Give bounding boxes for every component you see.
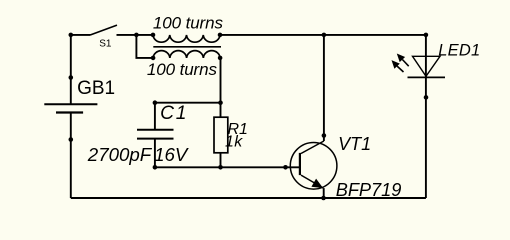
svg-text:C1: C1 — [160, 103, 188, 124]
svg-text:VT1: VT1 — [338, 134, 371, 154]
svg-text:1k: 1k — [225, 133, 243, 150]
svg-text:LED1: LED1 — [438, 41, 480, 59]
svg-text:GB1: GB1 — [77, 78, 115, 99]
svg-text:100 turns: 100 turns — [147, 60, 218, 79]
svg-text:BFP719: BFP719 — [336, 180, 402, 200]
svg-text:100 turns: 100 turns — [153, 14, 224, 33]
svg-text:16V: 16V — [154, 144, 189, 165]
svg-text:S1: S1 — [99, 38, 112, 49]
svg-text:2700pF: 2700pF — [87, 144, 153, 165]
